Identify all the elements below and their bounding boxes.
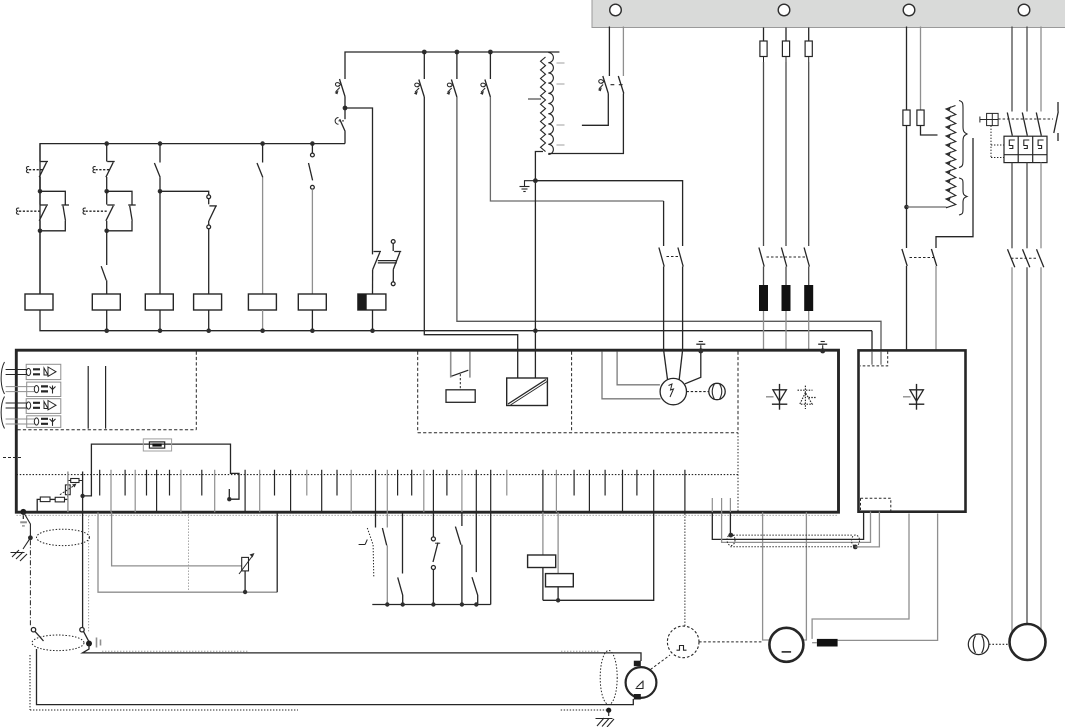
node: [385, 602, 389, 606]
node: [904, 205, 909, 210]
wire to K1: [39, 231, 41, 294]
partition lines: [88, 366, 105, 429]
wire: [344, 97, 346, 109]
fuse F6: [805, 28, 812, 63]
wire to winding bottom: [907, 206, 947, 208]
bar circle 2: [778, 4, 790, 16]
external control contacts row: [376, 512, 491, 604]
wire: [763, 267, 765, 286]
terminal ticks gray short: [307, 470, 731, 512]
reference potentiometer wiring: [98, 512, 277, 592]
relay return wire: [543, 512, 654, 600]
coil stub Y1: [372, 310, 374, 331]
wire F1 to converter: [424, 97, 517, 378]
fuse F11: [917, 27, 938, 136]
wire to top bus: [345, 52, 559, 79]
varistor component: [143, 439, 171, 451]
relay coil K1: [25, 294, 53, 310]
node: [260, 328, 265, 333]
tacho signal wire: [82, 512, 84, 627]
wire into block: [871, 352, 873, 365]
fuse F10: [903, 27, 910, 126]
wire: [785, 62, 787, 246]
overload element F7: [759, 285, 768, 311]
circuit breaker Q1: [335, 79, 345, 97]
wire: [344, 108, 346, 119]
node col5: [260, 141, 265, 146]
chassis ground node: [818, 342, 827, 354]
relay coil K6: [298, 294, 326, 310]
external relay K11: [528, 512, 556, 600]
contact S11: [398, 577, 403, 604]
contact S13: [455, 527, 462, 605]
encoder cable A: [83, 644, 642, 662]
tacho generator B2: [667, 626, 699, 658]
armature contactor K8: [759, 248, 810, 267]
trip linkage dashed: [998, 118, 1053, 120]
actuator arrow: [359, 540, 368, 545]
node: [104, 328, 109, 333]
transformer secondary winding: [548, 53, 553, 155]
emergency stop contact S3 (NC): [93, 144, 115, 192]
screen dotted wire: [88, 516, 90, 633]
wire: [276, 512, 278, 592]
clamp bars: [97, 638, 101, 648]
link wire A: [712, 512, 863, 540]
parallel NC contact pair S4: [83, 191, 136, 231]
wire: [906, 126, 908, 208]
wire: [785, 267, 787, 286]
coil stub K4: [208, 310, 210, 331]
keyswitch S12: [431, 537, 440, 605]
terminal ticks dark short: [100, 470, 637, 496]
node: [104, 189, 109, 194]
node: [488, 50, 493, 55]
wire to K3: [159, 191, 161, 294]
cable shield ellipse 2: [32, 635, 84, 651]
dotted rail under box: [17, 514, 839, 516]
earth terminal converter: [20, 509, 27, 526]
plug contact right: [80, 628, 89, 642]
wire F2 to field converter: [457, 97, 881, 365]
wire: [1026, 163, 1028, 249]
node: [38, 189, 43, 194]
external relay K12: [546, 512, 574, 600]
terminal ticks dark long: [157, 470, 685, 512]
emergency stop contact S1 (NC): [26, 144, 48, 192]
contact S7: [257, 144, 263, 178]
node: [533, 178, 538, 183]
screen dotted run top: [102, 650, 600, 652]
resistor lead: [812, 642, 817, 644]
wire to fan motor: [1040, 267, 1042, 632]
terminal strip dotted rail: [17, 474, 739, 476]
pot cable shield dotted: [188, 514, 190, 591]
field converter box: [859, 350, 966, 511]
node: [158, 189, 163, 194]
shield continuation gray: [855, 512, 879, 547]
plug contact left: [31, 628, 43, 642]
thermal overload block: [1004, 136, 1047, 162]
node: [370, 328, 375, 333]
coil stub K5: [262, 310, 264, 331]
relay coil K4: [194, 294, 222, 310]
breaker Q3: [598, 76, 624, 94]
wire: [1040, 163, 1042, 249]
chassis ground node: [696, 342, 705, 354]
node: [556, 598, 560, 602]
brace tap marks: [959, 101, 967, 216]
fuse F4: [760, 28, 767, 63]
wire F3 to fan contactor: [490, 97, 663, 201]
node: [310, 328, 315, 333]
node col6: [310, 141, 315, 146]
wire branch to start button: [160, 191, 209, 195]
contact S5: [154, 144, 160, 192]
brake switch with aux S9: [373, 240, 402, 294]
cable marker small 1: [727, 535, 735, 546]
auxiliary contact: [1054, 102, 1059, 141]
wire gray: [67, 472, 69, 513]
wire pole1 tap: [582, 94, 608, 126]
series resistor R11: [817, 639, 838, 647]
dashed terminal block bottom: [861, 498, 891, 510]
wire tacho input: [82, 472, 84, 513]
wire from bar: [1026, 27, 1028, 112]
transformer primary winding: [541, 57, 546, 152]
field wire to motor 2: [838, 514, 938, 641]
wire to K4: [208, 229, 210, 294]
cable marker small 2: [852, 535, 860, 546]
wire feed brake column: [345, 108, 373, 254]
shield dash stub: [3, 457, 22, 459]
coil return bus N: [40, 310, 872, 331]
wire from bar: [608, 27, 610, 77]
contacts common bus: [372, 604, 490, 606]
coil stub K6: [311, 310, 313, 331]
dotted actuator link: [367, 528, 374, 577]
encoder ground: [596, 708, 615, 727]
wire: [808, 62, 810, 246]
ground symbol transformer: [520, 181, 536, 192]
node: [455, 50, 460, 55]
varistor loop wire: [83, 444, 239, 499]
wire from bar: [1040, 27, 1042, 112]
dotted edge continuation: [737, 433, 739, 511]
pulse encoder B1: [626, 661, 657, 700]
node: [243, 590, 247, 594]
wire: [785, 311, 787, 350]
relay coil K5: [248, 294, 276, 310]
fan impeller symbol: [968, 634, 989, 655]
relay coil K2: [92, 294, 120, 310]
thyristor symbol V1: [766, 384, 787, 410]
interface dashed box: [418, 352, 738, 433]
relay coil K3: [145, 294, 173, 310]
thyristor symbol dashed V2: [798, 386, 817, 409]
link dotted shield A: [730, 534, 853, 536]
fan motor M2: [1010, 624, 1046, 660]
breaker F3: [480, 52, 490, 97]
overload element F8: [782, 285, 791, 311]
tacho feedback dotted wire: [684, 514, 686, 627]
thermistor contact fork: [446, 352, 475, 403]
wire to fan motor: [1026, 267, 1028, 624]
wire into block: [880, 352, 882, 365]
primary tap stub: [528, 98, 541, 100]
parallel NC contact pair S2: [16, 191, 69, 231]
field contactor K9: [902, 207, 937, 350]
wire to K6: [311, 189, 313, 294]
secondary tap stubs: [557, 63, 565, 145]
dashed coupling encoder-tacho: [651, 655, 671, 670]
link dotted shield B: [730, 546, 855, 548]
potentiometer R10: [239, 553, 255, 592]
node col2: [104, 141, 109, 146]
option module dashed box: [18, 352, 197, 430]
bar circle 4: [1018, 4, 1030, 16]
link wire B: [722, 512, 871, 543]
node: [104, 229, 109, 234]
operator square: [980, 113, 998, 125]
node: [158, 328, 163, 333]
wire: [39, 177, 41, 191]
node: [431, 602, 435, 606]
fibre module X4: [6, 416, 61, 428]
wire from bar: [1011, 27, 1013, 112]
pushbutton S8: [309, 144, 315, 190]
secondary bottom lead: [548, 94, 623, 154]
field wire to motor: [812, 514, 909, 639]
DC motor M1: [769, 628, 803, 662]
wire: [808, 311, 810, 350]
fibre module X1: [6, 364, 61, 379]
operator dotted link: [991, 126, 1004, 158]
node col3: [158, 141, 163, 146]
node: [474, 602, 478, 606]
screen wire dashdot: [29, 540, 31, 626]
wire return to converter B: [871, 331, 873, 365]
cable brackets: [1, 362, 4, 429]
node: [460, 602, 464, 606]
node: [401, 602, 405, 606]
wire main riser: [344, 132, 346, 144]
start pushbutton S6 (NO): [207, 195, 217, 229]
contact S10: [382, 528, 387, 604]
busbar panel: [592, 0, 1065, 28]
fuse F5: [782, 28, 789, 63]
node: [206, 328, 211, 333]
wire: [729, 512, 731, 535]
tick stub: [228, 489, 230, 499]
terminal ticks gray: [111, 470, 556, 512]
node: [728, 533, 733, 538]
node: [853, 545, 858, 550]
node: [38, 229, 43, 234]
neutral wire to fan contactor: [535, 181, 682, 246]
scaling resistor chain: [37, 497, 68, 512]
fan contactor K10: [1008, 249, 1044, 267]
encoder cable B: [37, 649, 634, 705]
shield chain left: [11, 512, 33, 561]
cable shield ellipse 1: [37, 529, 90, 545]
node: [80, 494, 84, 498]
bar circle 3: [903, 4, 915, 16]
fibre module X3: [6, 399, 61, 414]
wire to K5: [262, 177, 264, 294]
field autotransformer winding L1: [946, 106, 956, 208]
coil stub K3: [159, 310, 161, 331]
internal power supply rectifier: [507, 378, 548, 406]
NO contact K aux: [101, 231, 107, 294]
node: [227, 497, 231, 501]
overload element F9: [804, 285, 813, 311]
primary bottom lead: [535, 152, 543, 379]
node: [533, 328, 538, 333]
trimmer potentiometer: [60, 484, 77, 498]
cable shield ellipse encoder: [600, 651, 617, 705]
fibre module X2: [6, 382, 61, 396]
disconnect switch Q2: [335, 118, 345, 132]
thyristor symbol V3: [903, 384, 924, 410]
breaker F2: [447, 52, 457, 97]
bar circle 1: [610, 4, 622, 16]
wire: [808, 267, 810, 286]
wire: [763, 311, 765, 350]
dashed shaft tacho-motor: [699, 641, 762, 643]
wire to fan motor: [1011, 267, 1013, 632]
contact S14: [472, 577, 478, 604]
armature wire C1: [763, 512, 772, 640]
fan circuit inside converter: [602, 350, 725, 405]
fan contactor K7: [659, 201, 683, 350]
node: [343, 106, 348, 111]
breaker poles Q4: [1007, 113, 1041, 136]
dashed terminal block top: [860, 352, 888, 366]
wire from bar: [622, 27, 624, 77]
wire: [1011, 163, 1013, 249]
node shield clamp: [86, 641, 92, 647]
dotted shaft link: [989, 643, 1009, 645]
screen drop wire: [29, 655, 31, 710]
armature wire D1: [802, 512, 807, 640]
feedback resistor: [68, 479, 83, 483]
node: [422, 50, 427, 55]
wire: [763, 62, 765, 246]
control bus wire L1: [40, 144, 345, 294]
screen dotted run bottom: [30, 709, 609, 711]
converter enclosure box: [16, 350, 838, 512]
breaker F1: [414, 52, 424, 97]
brake solenoid Y1: [358, 294, 386, 310]
coil stub K2: [106, 310, 108, 331]
field tap return wire: [936, 138, 973, 248]
